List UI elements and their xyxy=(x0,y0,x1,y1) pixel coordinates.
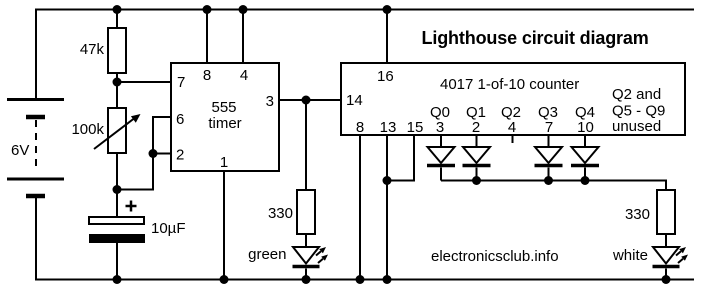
svg-text:6: 6 xyxy=(176,111,184,128)
svg-text:unused: unused xyxy=(612,118,661,135)
wire 4017 pin 13 down xyxy=(386,135,388,280)
wire Q2 unused stub xyxy=(512,135,514,143)
node junction pins 2/6 xyxy=(149,149,158,158)
svg-text:1: 1 xyxy=(220,154,228,171)
wire from rail to R1 xyxy=(116,10,118,29)
wire 555 pin 6 xyxy=(153,117,171,154)
svg-text:2: 2 xyxy=(472,119,480,136)
resistor R3 330 white branch xyxy=(657,190,675,234)
svg-text:8: 8 xyxy=(356,119,364,136)
resistor R1 47k xyxy=(108,28,126,73)
svg-text:555: 555 xyxy=(211,99,236,116)
capacitor C1 negative plate xyxy=(89,234,145,243)
wire 555 pin 8 to rail xyxy=(206,10,208,64)
node D3 bus junction xyxy=(544,176,553,185)
svg-text:green: green xyxy=(248,246,286,263)
wire 555 pin 4 to rail xyxy=(242,10,244,64)
node pin 4 rail junction xyxy=(239,5,248,14)
wire 4017 pin 8 to 0V rail xyxy=(359,135,361,280)
wire R2 to LED1 xyxy=(305,234,307,247)
svg-text:Q0: Q0 xyxy=(430,104,450,121)
capacitor C1 10uF positive plate xyxy=(89,217,144,224)
wire 4017 pin 15 joins pin 13 xyxy=(387,135,414,181)
svg-text:Q3: Q3 xyxy=(538,104,558,121)
svg-text:7: 7 xyxy=(177,74,185,91)
svg-text:3: 3 xyxy=(266,93,274,110)
svg-text:Q4: Q4 xyxy=(575,104,595,121)
wire VR1 bottom to cap node xyxy=(116,153,118,190)
battery B1 6V xyxy=(7,100,64,197)
svg-text:4: 4 xyxy=(240,67,248,84)
wire R3 to LED2 xyxy=(665,234,667,247)
svg-text:14: 14 xyxy=(346,92,363,109)
svg-text:Q2: Q2 xyxy=(501,104,521,121)
svg-text:330: 330 xyxy=(625,206,650,223)
svg-text:8: 8 xyxy=(203,67,211,84)
node pin 16 rail junction xyxy=(383,5,392,14)
node LED1 ground junction xyxy=(302,275,311,284)
diode D2 on Q1 xyxy=(463,135,491,181)
node pin 8 ground junction xyxy=(356,275,365,284)
resistor R2 330 green branch xyxy=(297,190,315,234)
node junction R1/VR1/pin7 xyxy=(113,78,122,87)
wire 4017 pin 16 to rail xyxy=(386,10,388,64)
svg-text:6V: 6V xyxy=(11,142,29,159)
svg-text:15: 15 xyxy=(407,119,424,136)
wire 555 pin 2 xyxy=(153,153,171,155)
wire node to VR1 top xyxy=(116,82,118,108)
wire R1 to node xyxy=(116,73,118,82)
node pin 13 ground junction xyxy=(383,275,392,284)
svg-text:4: 4 xyxy=(508,119,516,136)
svg-text:3: 3 xyxy=(436,119,444,136)
svg-text:timer: timer xyxy=(208,115,241,132)
node pin 3 output junction xyxy=(302,96,311,105)
diode D4 on Q4 xyxy=(571,135,599,181)
node D2 bus junction xyxy=(472,176,481,185)
svg-text:10: 10 xyxy=(577,119,594,136)
svg-text:16: 16 xyxy=(377,68,394,85)
wire pin2 node to cap node xyxy=(117,154,153,190)
wire node to R2 xyxy=(305,100,307,190)
wire 555 pin 1 to 0V rail xyxy=(223,171,225,280)
svg-text:330: 330 xyxy=(268,205,293,222)
wire diode OR bus to R3 xyxy=(441,181,666,191)
svg-text:Q2 and: Q2 and xyxy=(612,86,661,103)
node LED2 ground junction xyxy=(662,275,671,284)
LED1 green xyxy=(293,247,329,280)
potentiometer VR1 100k xyxy=(94,108,141,153)
svg-text:Q1: Q1 xyxy=(466,104,486,121)
diode D1 on Q0 xyxy=(427,135,455,181)
IC U2 4017 counter box xyxy=(341,63,685,135)
node R1 rail junction xyxy=(113,5,122,14)
wire top supply rail xyxy=(36,10,694,100)
wire C1 to 0V rail xyxy=(116,243,118,280)
LED2 white xyxy=(653,247,689,280)
wire 555 pin 3 to 4017 pin 14 xyxy=(279,99,341,101)
node pins 13/15 junction xyxy=(383,176,392,185)
svg-text:7: 7 xyxy=(545,119,553,136)
svg-text:47k: 47k xyxy=(80,41,105,58)
wire bottom 0V rail xyxy=(36,196,694,280)
op-amp U1 555 timer box xyxy=(171,63,279,171)
node junction VR1/C1/pin2 xyxy=(113,185,122,194)
capacitor C1 plus sign xyxy=(126,201,137,212)
wire cap node to C1 xyxy=(116,190,118,218)
svg-text:100k: 100k xyxy=(71,121,104,138)
svg-text:13: 13 xyxy=(380,119,397,136)
svg-text:4017 1-of-10 counter: 4017 1-of-10 counter xyxy=(440,76,579,93)
svg-text:Q5 - Q9: Q5 - Q9 xyxy=(612,103,665,120)
node pin 8 rail junction xyxy=(203,5,212,14)
svg-text:2: 2 xyxy=(176,147,184,164)
diode D3 on Q3 xyxy=(535,135,563,181)
svg-text:10µF: 10µF xyxy=(151,220,186,237)
svg-text:white: white xyxy=(612,247,648,264)
node C1 ground junction xyxy=(113,275,122,284)
wire node to 555 pin 7 xyxy=(117,81,171,83)
node pin 1 ground junction xyxy=(220,275,229,284)
svg-text:electronicsclub.info: electronicsclub.info xyxy=(431,248,559,265)
node D4 bus junction xyxy=(581,176,590,185)
svg-text:Lighthouse circuit diagram: Lighthouse circuit diagram xyxy=(422,28,649,48)
